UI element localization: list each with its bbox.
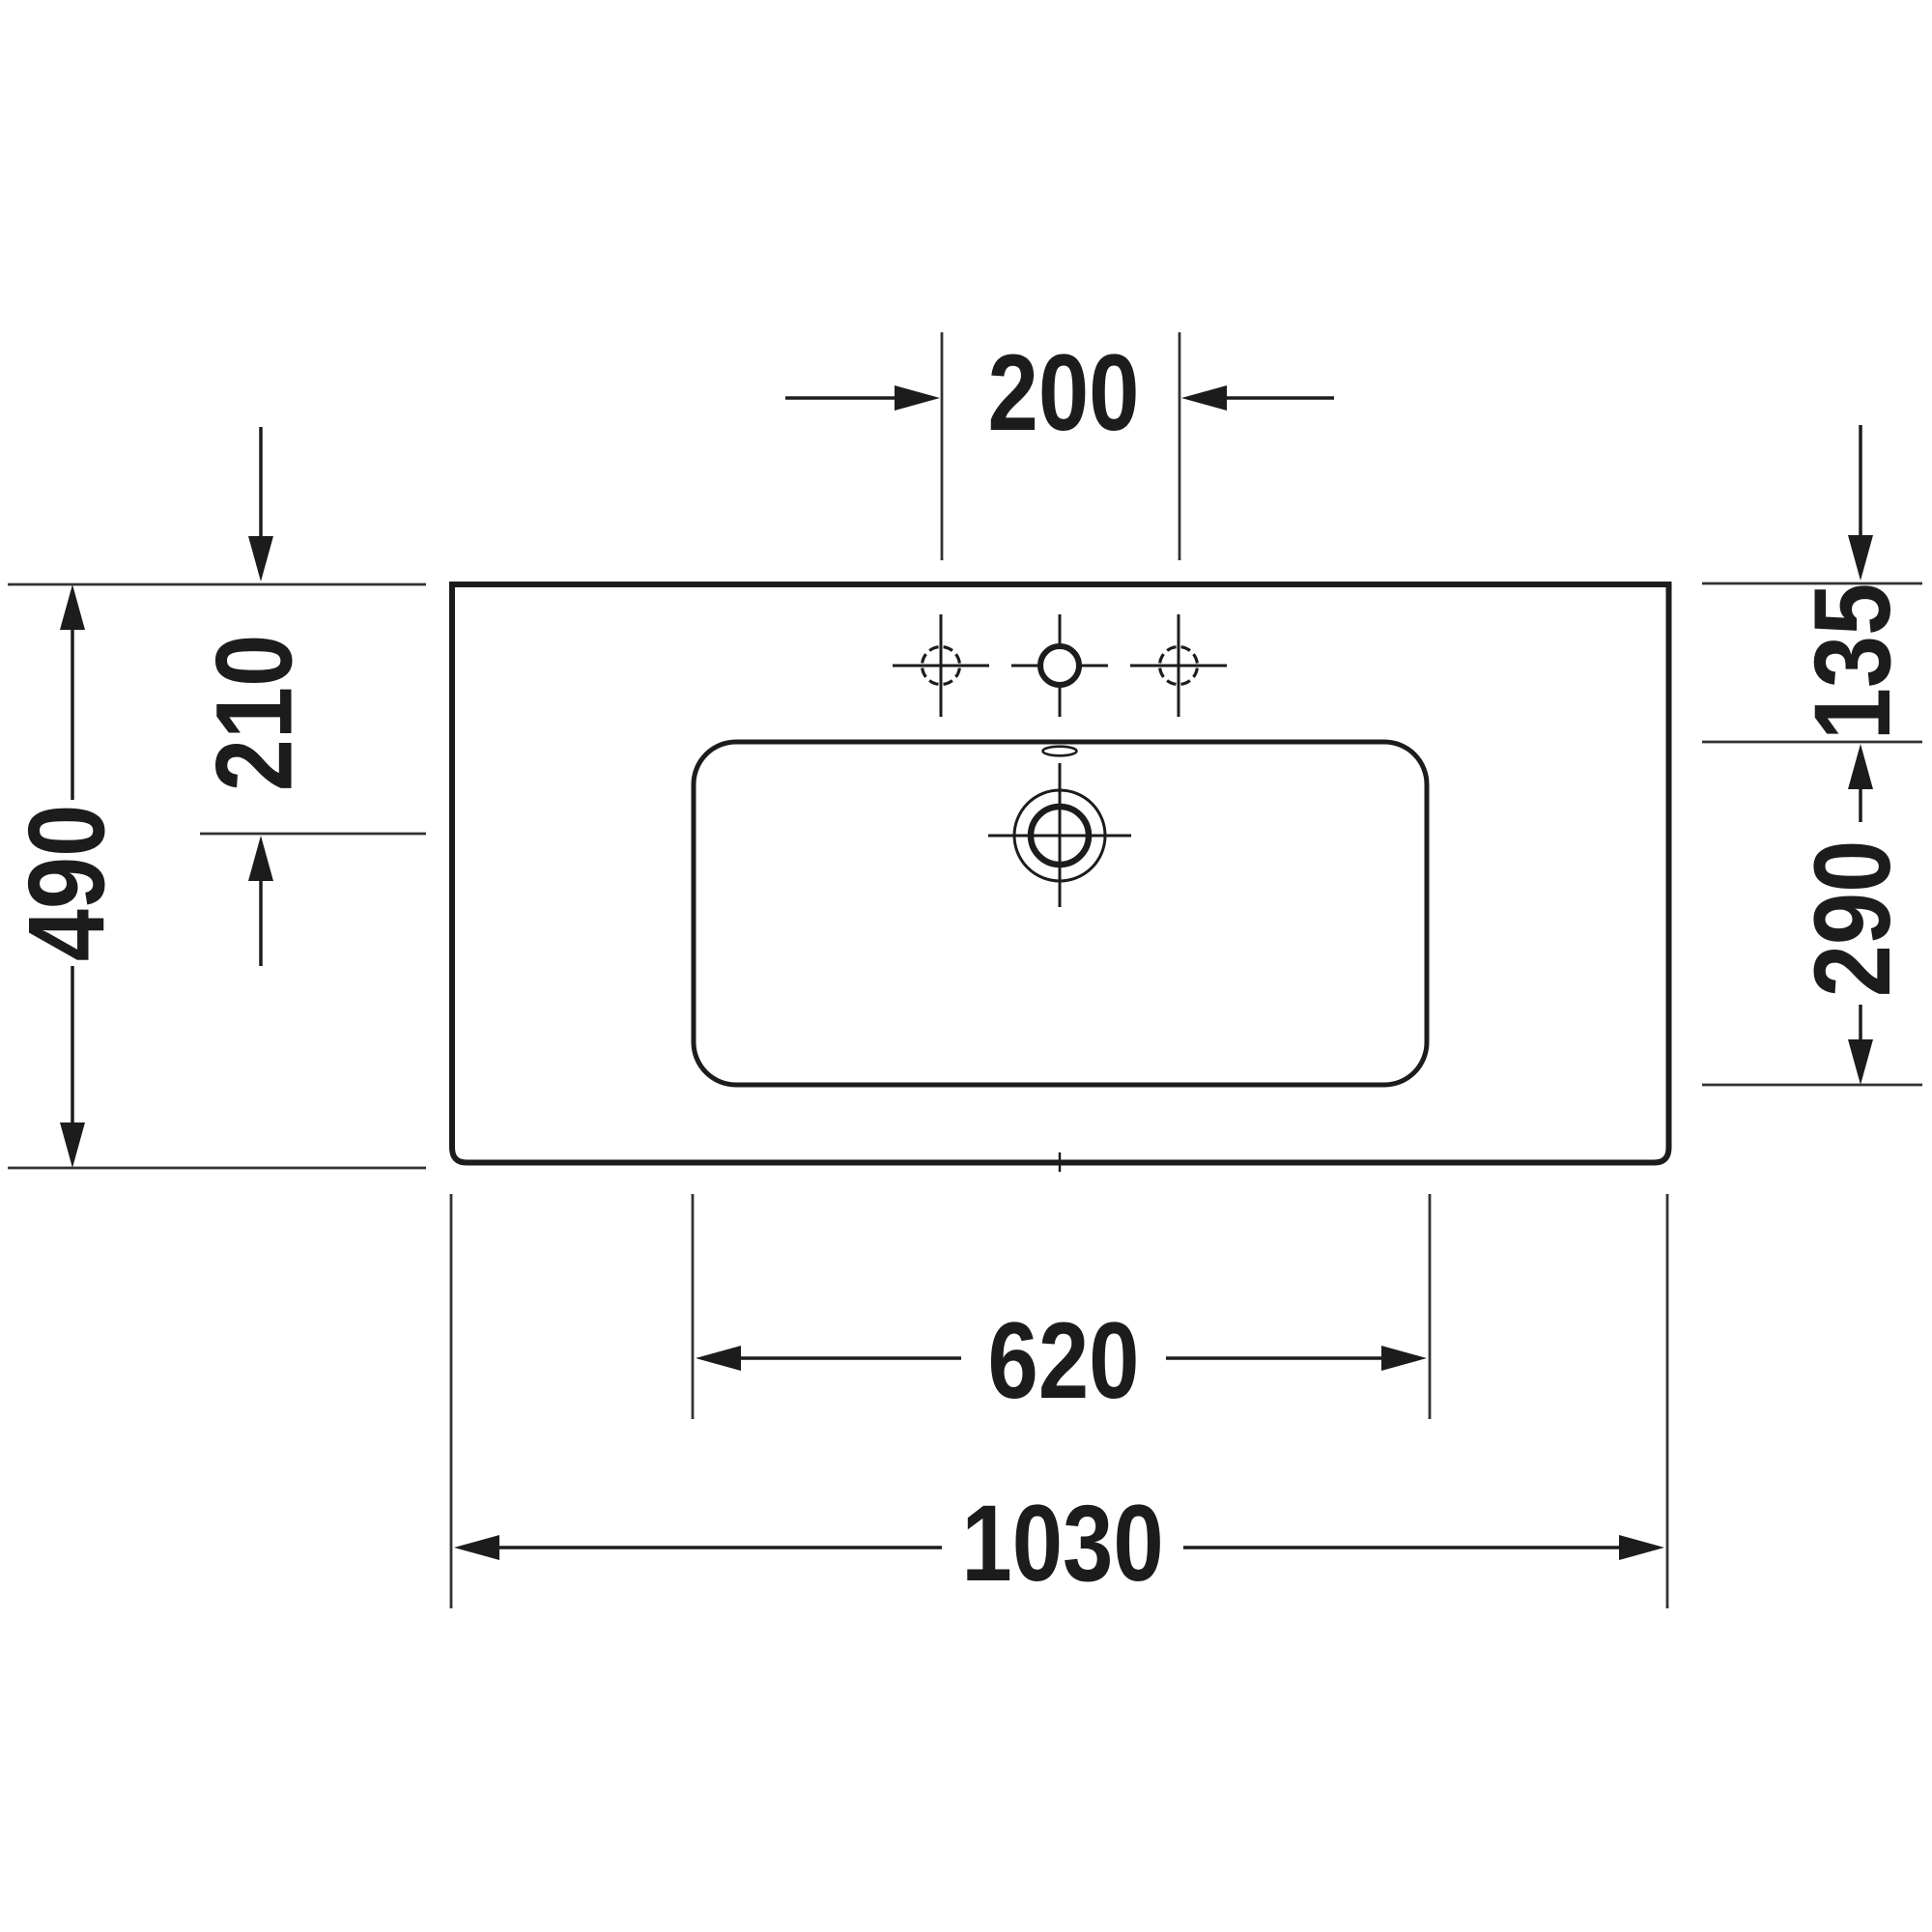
svg-text:210: 210 — [194, 635, 315, 792]
svg-text:1030: 1030 — [961, 1482, 1163, 1604]
svg-text:135: 135 — [1793, 583, 1914, 741]
svg-text:290: 290 — [1793, 840, 1914, 998]
svg-text:490: 490 — [7, 805, 128, 962]
svg-text:620: 620 — [988, 1299, 1140, 1421]
svg-text:200: 200 — [988, 331, 1140, 453]
